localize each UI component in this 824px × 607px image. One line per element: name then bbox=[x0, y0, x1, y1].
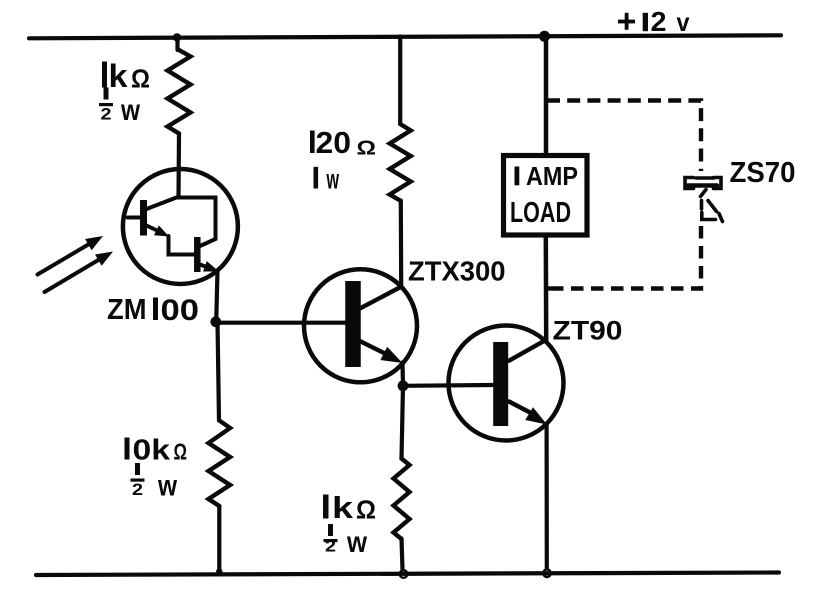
resistor R1 1kΩ 1/2W bbox=[168, 50, 191, 134]
diode ZS70 (dashed zener): cathode bar bbox=[685, 178, 721, 189]
load box "1 AMP LOAD" bbox=[504, 156, 588, 236]
svg-text:Ω: Ω bbox=[356, 495, 376, 525]
svg-text:00: 00 bbox=[161, 294, 200, 327]
svg-text:2: 2 bbox=[132, 480, 143, 499]
svg-text:ZT90: ZT90 bbox=[553, 316, 623, 346]
light arrow 1 into ZM100 bbox=[38, 244, 91, 275]
transistor ZT90: emitter lead with arrow bbox=[509, 402, 532, 414]
wire: ZTX300 emitter down to node B bbox=[400, 363, 405, 387]
transistor Q2 of ZM100: emitter lead with arrow bbox=[200, 265, 208, 268]
wire: top rail down to load box bbox=[544, 37, 549, 156]
transistor Q2 of ZM100: base bar bbox=[194, 237, 201, 272]
svg-text:Ω: Ω bbox=[357, 137, 377, 159]
svg-text:AMP: AMP bbox=[526, 161, 578, 191]
node: open junction of ZT90 emitter at bottom rail bbox=[543, 569, 551, 577]
wire: dashed link, right side below ZS70 and bottom side bbox=[552, 226, 701, 289]
phototransistor ZM100 (photo-darlington) envelope circle bbox=[123, 169, 238, 284]
transistor ZTX300: emitter lead with arrow bbox=[361, 342, 388, 356]
node: junction of R1 with top rail bbox=[173, 33, 181, 41]
svg-text:2: 2 bbox=[325, 537, 336, 556]
svg-text:k: k bbox=[109, 58, 128, 94]
node: R3 at bottom rail bbox=[216, 568, 222, 574]
label: R1 wattage 1/2 w bbox=[99, 88, 141, 128]
label: +12 v bbox=[618, 6, 690, 37]
svg-text:Ω: Ω bbox=[174, 439, 188, 465]
svg-text:LOAD: LOAD bbox=[510, 197, 571, 229]
wire: node B to ZT90 base bbox=[403, 383, 492, 388]
svg-text:w: w bbox=[346, 526, 367, 559]
transistor Q1 of ZM100: base stub bbox=[128, 216, 141, 220]
wire: resistor R4 to bottom rail bbox=[402, 539, 403, 570]
label: R2 wattage 1w bbox=[314, 164, 340, 195]
wire: ZM100 emitter down to divider node bbox=[216, 271, 217, 322]
label: R1 value 1kΩ bbox=[102, 58, 150, 94]
wire: resistor R3 to bottom rail bbox=[217, 506, 221, 575]
wire: ZT90 emitter down to bottom rail bbox=[544, 424, 548, 569]
wire: dashed link, top side to ZS70 bbox=[547, 101, 701, 172]
wire: 0V bottom rail bbox=[36, 573, 779, 576]
wire: internal collector bus of ZM100 bbox=[179, 198, 216, 247]
svg-text:2: 2 bbox=[101, 105, 112, 124]
wire: node A to ZTX300 base bbox=[216, 321, 345, 325]
svg-text:ZTX300: ZTX300 bbox=[408, 256, 506, 287]
transistor Q1 of ZM100: emitter lead with arrow bbox=[147, 226, 159, 232]
wire: resistor R1 to phototransistor ZM100 collector node bbox=[176, 134, 181, 198]
wire: top rail to resistor R1 bbox=[175, 38, 179, 51]
label: R4 value 1kΩ bbox=[323, 490, 376, 525]
svg-text:0k: 0k bbox=[133, 435, 172, 467]
label: R3 wattage 1/2 w bbox=[131, 463, 178, 503]
node A: ZM100 emitter / R3 / ZTX300 base junction bbox=[210, 316, 221, 327]
transistor ZTX300: base bar bbox=[345, 281, 361, 367]
svg-text:w: w bbox=[157, 470, 177, 503]
wire: node A down to resistor R3 bbox=[218, 322, 220, 421]
wire: Q1 emitter to Q2 base inside ZM100 bbox=[169, 236, 195, 255]
transistor ZT90: base bar bbox=[493, 342, 508, 426]
transistor ZTX300 envelope circle bbox=[304, 269, 417, 382]
wire: resistor R2 down to ZTX300 collector bbox=[399, 201, 404, 287]
transistor Q1 of ZM100: base bar bbox=[140, 200, 147, 236]
svg-text:ZS70: ZS70 bbox=[730, 157, 796, 189]
label: R4 wattage 1/2 w bbox=[324, 524, 368, 559]
diode ZS70 (dashed zener): anode triangle strokes bbox=[701, 190, 723, 222]
resistor R4 1kΩ 1/2W bbox=[394, 459, 410, 540]
light arrow 2 into ZM100 bbox=[45, 259, 101, 292]
node B: ZTX300 emitter / ZT90 base / R4 junction bbox=[398, 380, 409, 391]
svg-text:Ω: Ω bbox=[131, 64, 150, 94]
wire: node B down to resistor R4 bbox=[402, 386, 404, 459]
transistor ZTX300: collector lead bbox=[361, 287, 402, 309]
wire: +12V top supply rail bbox=[29, 35, 781, 38]
svg-text:20: 20 bbox=[316, 125, 352, 160]
resistor R3 10kΩ 1/2W bbox=[209, 421, 231, 507]
node: junction of load branch with top rail bbox=[539, 31, 550, 42]
svg-text:v: v bbox=[677, 7, 690, 37]
wire: load box down to ZT90 collector bbox=[544, 235, 549, 340]
transistor Q1 of ZM100: collector lead bbox=[147, 197, 180, 210]
node: open junction of R4 at bottom rail bbox=[400, 570, 408, 578]
label: R3 value 10kΩ bbox=[125, 435, 188, 467]
transistor ZT90 envelope circle bbox=[449, 326, 564, 441]
label: R2 value 120Ω bbox=[310, 125, 376, 160]
svg-text:ZM: ZM bbox=[107, 294, 147, 326]
svg-text:w: w bbox=[326, 164, 339, 195]
label: ZM100 bbox=[107, 294, 199, 327]
resistor R2 120Ω 1W bbox=[390, 124, 411, 201]
svg-text:k: k bbox=[332, 490, 354, 525]
svg-text:w: w bbox=[120, 94, 140, 127]
transistor ZT90: collector lead bbox=[509, 340, 546, 361]
svg-text:2: 2 bbox=[651, 6, 667, 37]
wire: top rail to resistor R2 bbox=[398, 37, 402, 125]
